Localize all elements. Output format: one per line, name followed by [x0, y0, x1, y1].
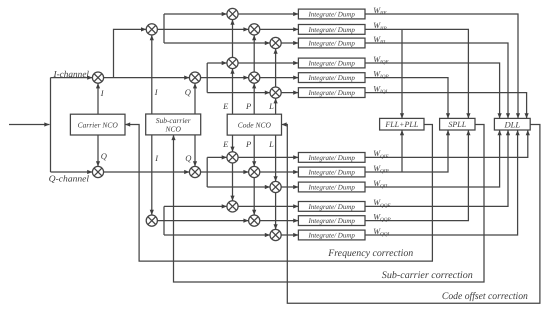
wire code L down through QI-L to QQ-L mixer — [274, 135, 278, 229]
svg-text:Code offset correction: Code offset correction — [442, 291, 528, 302]
label Frequency correction — [327, 248, 413, 259]
multiplier M7 (II-E code mixer) — [227, 8, 238, 19]
wire correlator row 8 to Integrate/Dump — [260, 170, 299, 174]
label E code lower — [222, 139, 229, 149]
integrator Integrate/Dump IQE — [298, 58, 365, 68]
wire correlator row 10 to Integrate/Dump — [238, 204, 298, 208]
svg-text:Q: Q — [185, 153, 191, 163]
label I sub-carrier lower — [154, 153, 159, 163]
label W_QQP — [373, 212, 391, 223]
wire branch of M3 output to E/P/L mixers (II group) — [157, 12, 270, 45]
label W_IQE — [373, 55, 389, 66]
wire input signal — [9, 122, 50, 126]
label P code upper — [245, 101, 251, 111]
wire Q-channel baseband to mixer M5 — [104, 170, 190, 174]
wire W_QIP branch up to FLL+PLL — [400, 130, 404, 172]
integrator Integrate/Dump QQL — [298, 230, 365, 240]
svg-text:L: L — [268, 101, 274, 111]
svg-text:Integrate/ Dump: Integrate/ Dump — [307, 169, 355, 177]
integrator Integrate/Dump QIL — [298, 182, 365, 192]
integrator Integrate/Dump IIL — [298, 38, 365, 48]
multiplier M15 (QI-L code mixer) — [270, 181, 281, 192]
svg-text:L: L — [268, 139, 274, 149]
label Q sub-carrier lower — [185, 153, 191, 163]
svg-text:Integrate/ Dump: Integrate/ Dump — [307, 74, 355, 82]
multiplier M13 (QI-E code mixer) — [227, 152, 238, 163]
svg-text:Carrier NCO: Carrier NCO — [78, 120, 119, 129]
svg-text:Sub-carrier correction: Sub-carrier correction — [382, 270, 473, 281]
wire W_IIL to DLL — [365, 43, 510, 118]
label W_QIL — [373, 179, 388, 190]
loop filter DLL — [494, 118, 530, 130]
integrator Integrate/Dump QQP — [298, 216, 365, 226]
label W_QIP — [373, 164, 389, 175]
multiplier M14 (QI-P code mixer) — [249, 166, 260, 177]
wire sub-carrier I up to mixer M3 — [150, 35, 154, 114]
wire correlator row 2 to Integrate/Dump — [260, 27, 299, 31]
label W_IQL — [373, 84, 388, 95]
wire correlator row 9 to Integrate/Dump — [281, 185, 298, 189]
svg-text:NCO: NCO — [164, 124, 181, 133]
multiplier M10 (IQ-E code mixer) — [227, 57, 238, 68]
wire code L up through IQ-L to II-L mixer — [274, 49, 278, 115]
wire code P up through IQ-P to II-P mixer — [252, 35, 256, 114]
label I-channel — [52, 69, 89, 79]
wire I/Q split vertical — [50, 78, 52, 172]
wire sub-carrier Q down to mixer M5 — [193, 135, 197, 167]
wire W_IQP to SPLL — [365, 78, 450, 119]
wire correlator row 11 to Integrate/Dump — [260, 219, 299, 223]
svg-text:Integrate/ Dump: Integrate/ Dump — [307, 40, 355, 48]
wire correlator row 12 to Integrate/Dump — [281, 233, 298, 237]
loop filter FLL+PLL — [380, 118, 424, 130]
label I carrier — [100, 88, 105, 98]
svg-text:Integrate/ Dump: Integrate/ Dump — [307, 203, 355, 211]
svg-text:Integrate/ Dump: Integrate/ Dump — [307, 232, 355, 240]
label W_IIE — [373, 6, 387, 17]
loop filter SPLL — [440, 118, 475, 130]
svg-text:Code NCO: Code NCO — [238, 120, 272, 129]
multiplier M5 (Q sub-carrier mixer lower) — [189, 166, 200, 177]
svg-text:E: E — [222, 101, 229, 111]
wire code E up through IQ-E to II-E mixer — [230, 20, 234, 115]
svg-text:Integrate/ Dump: Integrate/ Dump — [307, 217, 355, 225]
wire W_IQE to DLL — [365, 63, 502, 118]
wire code P down through QI-P to QQ-P mixer — [252, 135, 256, 215]
multiplier M2 (Q carrier mixer) — [92, 166, 103, 177]
svg-text:Frequency correction: Frequency correction — [327, 248, 413, 259]
svg-text:E: E — [222, 139, 229, 149]
integrator Integrate/Dump QQE — [298, 202, 365, 212]
svg-text:Integrate/ Dump: Integrate/ Dump — [307, 154, 355, 162]
label P code lower — [245, 139, 251, 149]
label W_IIP — [373, 21, 387, 32]
multiplier M12 (IQ-L code mixer) — [270, 87, 281, 98]
wire branch up to mixer M3 — [114, 27, 147, 77]
wire W_IIP to FLL+PLL and SPLL — [365, 29, 471, 118]
label Sub-carrier correction — [382, 270, 473, 281]
multiplier M18 (QQ-L code mixer) — [270, 229, 281, 240]
svg-text:Integrate/ Dump: Integrate/ Dump — [307, 184, 355, 192]
svg-text:Integrate/ Dump: Integrate/ Dump — [307, 26, 355, 34]
integrator Integrate/Dump IIE — [298, 9, 365, 19]
svg-text:Integrate/ Dump: Integrate/ Dump — [307, 11, 355, 19]
label W_IQP — [373, 69, 389, 80]
label E code upper — [222, 101, 229, 111]
wire W_IIP branch down to FLL+PLL — [400, 29, 404, 118]
label L code upper — [268, 101, 274, 111]
wire code E down through QI-E to QQ-E mixer — [230, 135, 234, 201]
multiplier M11 (IQ-P code mixer) — [249, 72, 260, 83]
wire branch of M4 output to E/P/L mixers (IQ group) — [201, 61, 270, 95]
wire correlator row 6 to Integrate/Dump — [281, 91, 298, 95]
svg-text:SPLL: SPLL — [448, 120, 466, 129]
svg-text:Integrate/ Dump: Integrate/ Dump — [307, 60, 355, 68]
multiplier M1 (I carrier mixer) — [92, 72, 103, 83]
wire sub-carrier I down to mixer M6 — [150, 135, 154, 215]
wire W_QIL to DLL — [365, 130, 502, 187]
label Q-channel — [49, 173, 90, 183]
label Code offset correction — [442, 291, 528, 302]
wire sub-carrier correction feedback SPLL to Sub-carrier NCO — [171, 125, 484, 283]
svg-text:Integrate/ Dump: Integrate/ Dump — [307, 89, 355, 97]
wire I-channel into mixer M1 — [51, 76, 93, 80]
label W_QQL — [373, 227, 390, 238]
label W_IIL — [373, 35, 386, 46]
integrator Integrate/Dump IIP — [298, 25, 365, 35]
wire W_QQL to DLL — [365, 130, 520, 235]
multiplier M4 (Q sub-carrier mixer) — [189, 72, 200, 83]
wire W_QIP to FLL+PLL and SPLL — [365, 130, 450, 172]
svg-text:Q: Q — [185, 87, 191, 97]
svg-text:FLL+PLL: FLL+PLL — [384, 120, 419, 129]
integrator Integrate/Dump QIP — [298, 167, 365, 177]
multiplier M6 (I sub-carrier mixer lower) — [146, 215, 157, 226]
integrator Integrate/Dump QIE — [298, 153, 365, 163]
svg-text:I-channel: I-channel — [52, 69, 89, 79]
wire carrier I to mixer M1 — [96, 83, 100, 114]
wire frequency correction feedback FLL+PLL to Carrier NCO — [125, 122, 432, 261]
label W_QQE — [373, 198, 391, 209]
wire carrier Q to mixer M2 — [96, 135, 100, 166]
wire Q-channel into mixer M2 — [51, 170, 93, 174]
wire I-channel baseband to mixer M4 — [104, 76, 190, 80]
wire branch of M6 output to E/P/L mixers (QQ group) — [157, 204, 270, 237]
svg-text:P: P — [245, 139, 251, 149]
wire code offset correction feedback DLL to Code NCO — [282, 122, 540, 303]
svg-text:Q-channel: Q-channel — [49, 173, 90, 183]
wire W_QQP to SPLL — [365, 130, 471, 221]
svg-text:DLL: DLL — [504, 119, 521, 129]
multiplier M8 (II-P code mixer) — [249, 24, 260, 35]
multiplier M3 (I sub-carrier mixer) — [146, 24, 157, 35]
wire correlator row 4 to Integrate/Dump — [238, 61, 298, 65]
multiplier M9 (II-L code mixer) — [270, 37, 281, 48]
wire W_QIE to DLL — [365, 130, 530, 157]
svg-text:Q: Q — [101, 151, 107, 161]
oscillator Code NCO — [227, 114, 281, 135]
oscillator Sub-carrier NCO — [146, 114, 201, 135]
wire W_IQL to DLL — [365, 93, 529, 119]
integrator Integrate/Dump IQP — [298, 73, 365, 83]
label Q sub-carrier upper — [185, 87, 191, 97]
label I sub-carrier upper — [154, 87, 159, 97]
svg-text:P: P — [245, 101, 251, 111]
wire correlator row 1 to Integrate/Dump — [238, 12, 298, 16]
wire correlator row 7 to Integrate/Dump — [238, 155, 298, 159]
label W_QIE — [373, 149, 389, 160]
label Q carrier — [101, 151, 107, 161]
wire correlator row 5 to Integrate/Dump — [260, 76, 299, 80]
multiplier M16 (QQ-E code mixer) — [227, 201, 238, 212]
wire branch of M5 output to E/P/L mixers (QI group) — [201, 155, 270, 189]
wire correlator row 3 to Integrate/Dump — [281, 41, 298, 45]
wire W_QQE to DLL — [365, 130, 510, 206]
multiplier M17 (QQ-P code mixer) — [249, 215, 260, 226]
integrator Integrate/Dump IQL — [298, 88, 365, 98]
label L code lower — [268, 139, 274, 149]
oscillator Carrier NCO — [70, 114, 125, 135]
wire W_IIE to DLL — [365, 14, 520, 118]
wire sub-carrier Q up to mixer M4 — [193, 83, 197, 114]
